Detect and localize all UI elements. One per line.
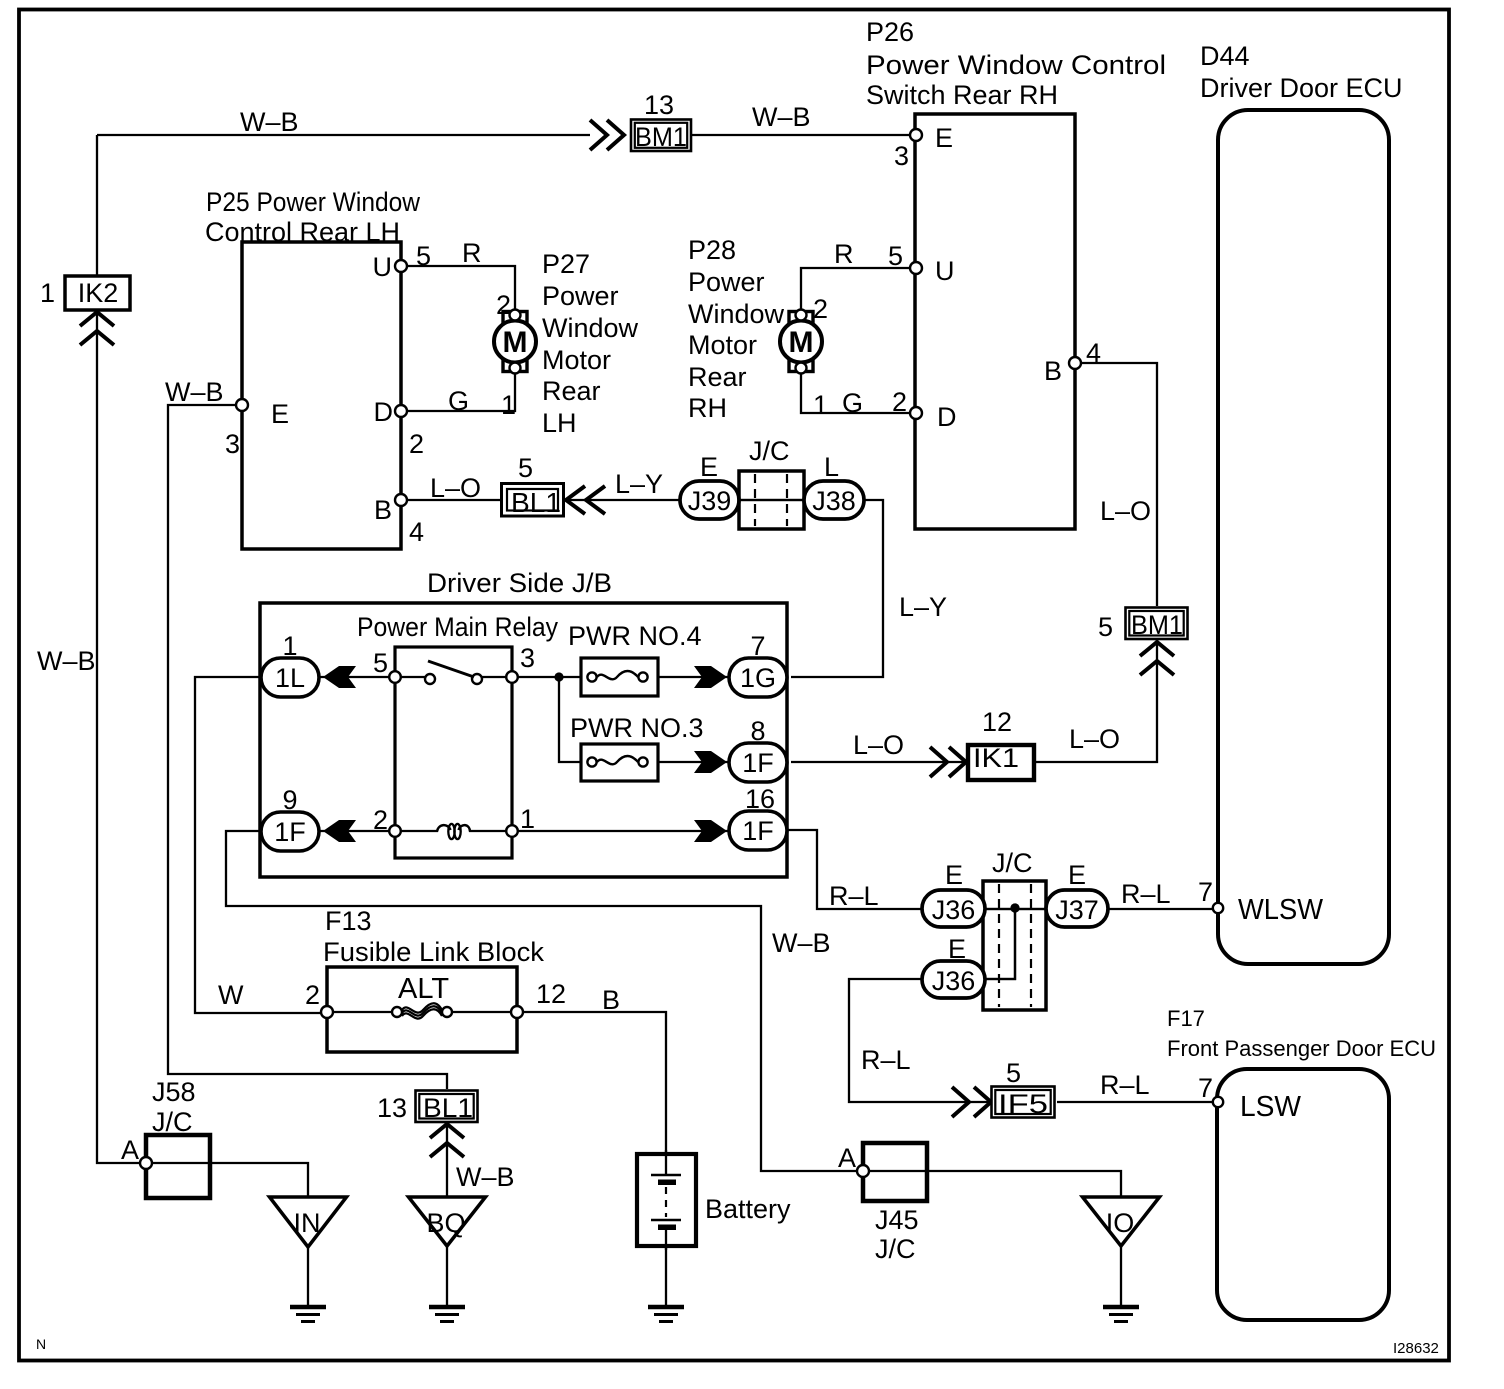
svg-text:Battery: Battery bbox=[705, 1194, 791, 1224]
svg-text:W–B: W–B bbox=[165, 377, 224, 407]
connector IK1 pin 12 bbox=[968, 707, 1034, 780]
svg-text:1G: 1G bbox=[740, 663, 776, 693]
wire R-L J36 through J/C to J37 to D44 pin WLSW bbox=[925, 908, 1212, 910]
connector BM1 pin 13 bbox=[631, 90, 691, 152]
svg-text:J39: J39 bbox=[688, 486, 732, 516]
svg-text:L–Y: L–Y bbox=[899, 592, 947, 622]
svg-text:M: M bbox=[503, 326, 528, 359]
relay coil bbox=[437, 825, 451, 831]
svg-text:4: 4 bbox=[1086, 338, 1101, 368]
svg-text:P26: P26 bbox=[866, 17, 914, 47]
P25 pin E (3) bbox=[225, 399, 289, 459]
connector BL1 pin 5 bbox=[502, 453, 564, 518]
svg-text:E: E bbox=[945, 860, 963, 890]
node A on J45 bbox=[838, 1143, 869, 1177]
junction connector J58 J/C bbox=[146, 1077, 210, 1198]
ground symbol below IO bbox=[1103, 1307, 1139, 1322]
node A on J58 bbox=[121, 1135, 152, 1169]
P26 pin D (2) bbox=[892, 387, 957, 432]
wire inside J/B: 1L to relay pin 5 bbox=[319, 676, 395, 678]
arrow into 1F 16 bbox=[694, 820, 727, 842]
junction connector oval J36 pin E upper bbox=[922, 860, 985, 927]
wire L-Y from J38 down to Driver Side J/B pin 1G bbox=[791, 500, 883, 677]
svg-text:Fusible Link Block: Fusible Link Block bbox=[323, 937, 544, 967]
ground symbol below BQ bbox=[429, 1307, 465, 1322]
svg-text:P28: P28 bbox=[688, 235, 736, 265]
wire inside fusible link block to ALT fuse bbox=[333, 1011, 392, 1013]
svg-text:Window: Window bbox=[688, 299, 785, 329]
P26 pin U (5) bbox=[888, 241, 955, 286]
svg-text:ALT: ALT bbox=[398, 973, 449, 1005]
wire R from P25 pin U to motor P27 bbox=[407, 266, 515, 310]
J/B pin 1 terminal 1L bbox=[261, 631, 319, 697]
svg-text:A: A bbox=[838, 1143, 856, 1173]
svg-text:Power Main Relay: Power Main Relay bbox=[357, 612, 558, 642]
Power Main Relay bbox=[357, 612, 558, 858]
relay pin 3 bbox=[506, 671, 518, 683]
wire L-O from P25 pin B to BL1 connector 5 bbox=[407, 499, 501, 501]
F13 pin 12 bbox=[511, 979, 566, 1018]
svg-text:BL1: BL1 bbox=[423, 1093, 473, 1123]
wire W-B from P25 pin E down and over to BL1 connector bbox=[168, 405, 447, 1089]
svg-text:4: 4 bbox=[409, 517, 424, 547]
svg-text:WLSW: WLSW bbox=[1238, 894, 1324, 926]
svg-text:Control Rear LH: Control Rear LH bbox=[205, 217, 400, 247]
junction dot at relay pin 3 branch bbox=[554, 672, 563, 681]
motor P27 Power Window Motor Rear LH bbox=[494, 290, 536, 420]
junction connector oval J38 pin L bbox=[804, 452, 864, 519]
ground triangle IN bbox=[270, 1197, 347, 1247]
svg-text:9: 9 bbox=[282, 785, 297, 815]
svg-text:PWR NO.4: PWR NO.4 bbox=[568, 621, 702, 651]
wire B from fusible link pin 12 to battery bbox=[523, 1012, 666, 1154]
svg-text:L–O: L–O bbox=[853, 730, 904, 760]
svg-text:B: B bbox=[602, 985, 620, 1015]
svg-text:L–O: L–O bbox=[430, 473, 481, 503]
J/B pin 9 terminal 1F bbox=[261, 785, 319, 851]
svg-text:J37: J37 bbox=[1055, 895, 1099, 925]
wire L-O from BM1 5 down to IK1 row bbox=[1034, 640, 1157, 762]
svg-text:16: 16 bbox=[745, 784, 775, 814]
wire R from P26 pin U to motor P28 bbox=[801, 268, 910, 310]
svg-text:RH: RH bbox=[688, 393, 727, 423]
svg-text:1: 1 bbox=[40, 278, 55, 308]
svg-text:R–L: R–L bbox=[1100, 1070, 1150, 1100]
svg-text:D: D bbox=[937, 402, 957, 432]
svg-text:D: D bbox=[374, 397, 394, 427]
svg-text:BL1: BL1 bbox=[511, 487, 561, 518]
svg-text:Rear: Rear bbox=[688, 362, 747, 392]
connector IK2 pin 1 bbox=[40, 276, 130, 310]
svg-text:Motor: Motor bbox=[542, 345, 611, 375]
svg-text:1L: 1L bbox=[275, 663, 305, 693]
P26 pin E (3) bbox=[894, 123, 953, 171]
svg-text:W–B: W–B bbox=[752, 102, 811, 132]
wire IO triangle to ground bbox=[1120, 1246, 1122, 1306]
svg-text:I28632: I28632 bbox=[1393, 1340, 1439, 1357]
svg-text:LH: LH bbox=[542, 408, 577, 438]
wire L-O from J/B pin 8 1F to IK1 bbox=[791, 761, 968, 763]
svg-text:B: B bbox=[374, 495, 392, 525]
svg-text:E: E bbox=[271, 399, 289, 429]
junction connector J/C box between J39 and J38 bbox=[739, 436, 804, 529]
junction connector J45 J/C bbox=[863, 1143, 927, 1264]
svg-text:J/C: J/C bbox=[875, 1234, 916, 1264]
svg-text:J36: J36 bbox=[932, 895, 976, 925]
D44 pin 7 WLSW bbox=[1198, 877, 1324, 926]
svg-text:R–L: R–L bbox=[829, 881, 879, 911]
wire W-B from J/B pin 9 1F down to J45 junction A bbox=[226, 831, 857, 1171]
svg-text:W–B: W–B bbox=[772, 928, 831, 958]
svg-text:12: 12 bbox=[982, 707, 1012, 737]
svg-text:F13: F13 bbox=[325, 906, 372, 936]
wire W-B top from left riser to BM1 connector bbox=[97, 134, 590, 136]
ECU P25 Power Window Control Rear LH bbox=[205, 187, 420, 549]
svg-text:J/C: J/C bbox=[749, 436, 790, 466]
svg-text:5: 5 bbox=[416, 241, 431, 271]
svg-text:IK1: IK1 bbox=[973, 743, 1019, 773]
svg-text:J45: J45 bbox=[875, 1205, 919, 1235]
Driver Side J/B box bbox=[260, 568, 787, 877]
wire W from J/B pin 1 1L down to fusible link block pin 2 bbox=[195, 677, 321, 1013]
svg-text:1F: 1F bbox=[274, 817, 306, 847]
svg-text:E: E bbox=[1068, 860, 1086, 890]
arrow into 1F 8 bbox=[694, 751, 727, 773]
svg-text:W–B: W–B bbox=[37, 646, 96, 676]
svg-text:Power: Power bbox=[688, 267, 765, 297]
wire R-L from J/B pin 16 1F to J36 bbox=[787, 830, 925, 909]
battery bbox=[637, 1150, 791, 1250]
chevrons before BM1 13 bbox=[590, 120, 624, 150]
svg-text:Driver Side J/B: Driver Side J/B bbox=[427, 568, 612, 598]
svg-text:5: 5 bbox=[518, 453, 533, 483]
fuse ALT bbox=[392, 973, 452, 1019]
F17 pin 7 LSW bbox=[1198, 1073, 1302, 1123]
J/B pin 8 terminal 1F bbox=[729, 716, 787, 782]
svg-text:2: 2 bbox=[409, 429, 424, 459]
svg-text:7: 7 bbox=[1198, 877, 1213, 907]
fuse PWR NO.3 bbox=[570, 713, 704, 781]
svg-text:Front Passenger Door ECU: Front Passenger Door ECU bbox=[1167, 1036, 1436, 1061]
svg-text:LSW: LSW bbox=[1240, 1091, 1302, 1123]
svg-text:N: N bbox=[36, 1336, 46, 1352]
wire G from P26 pin D to motor P28 bbox=[801, 372, 910, 413]
svg-text:L–O: L–O bbox=[1100, 496, 1151, 526]
svg-text:PWR NO.3: PWR NO.3 bbox=[570, 713, 704, 743]
svg-text:7: 7 bbox=[750, 631, 765, 661]
svg-text:L: L bbox=[824, 452, 839, 482]
svg-text:L–O: L–O bbox=[1069, 724, 1120, 754]
fuse PWR NO.4 bbox=[568, 621, 702, 696]
svg-text:13: 13 bbox=[644, 90, 674, 120]
svg-text:E: E bbox=[935, 123, 953, 153]
svg-text:J/C: J/C bbox=[992, 848, 1033, 878]
svg-text:8: 8 bbox=[750, 716, 765, 746]
svg-text:R: R bbox=[834, 239, 854, 269]
fusible link block F13 bbox=[323, 906, 544, 1052]
svg-text:B: B bbox=[1044, 356, 1062, 386]
svg-text:BM1: BM1 bbox=[635, 122, 687, 152]
svg-text:L–Y: L–Y bbox=[615, 469, 663, 499]
svg-text:7: 7 bbox=[1198, 1073, 1213, 1103]
relay pin 5 bbox=[389, 671, 401, 683]
chevrons before IF5 bbox=[952, 1087, 991, 1117]
svg-text:E: E bbox=[700, 452, 718, 482]
svg-text:2: 2 bbox=[892, 387, 907, 417]
svg-text:5: 5 bbox=[888, 241, 903, 271]
svg-text:3: 3 bbox=[894, 141, 909, 171]
svg-text:5: 5 bbox=[1098, 612, 1113, 642]
wire R-L from lower J36 to IF5 connector bbox=[849, 979, 992, 1102]
svg-text:W–B: W–B bbox=[456, 1162, 515, 1192]
junction dot inside J36/J37 J/C bbox=[1010, 903, 1019, 912]
svg-text:1: 1 bbox=[520, 804, 535, 834]
svg-text:J58: J58 bbox=[152, 1077, 196, 1107]
svg-text:2: 2 bbox=[813, 294, 828, 324]
chevrons below BL1 13 bbox=[430, 1124, 464, 1157]
svg-text:R–L: R–L bbox=[861, 1045, 911, 1075]
ground symbol below IN bbox=[290, 1307, 326, 1322]
svg-text:3: 3 bbox=[520, 643, 535, 673]
svg-text:IO: IO bbox=[1106, 1208, 1135, 1238]
chevrons after BL1 5 bbox=[566, 486, 605, 514]
svg-text:3: 3 bbox=[225, 429, 240, 459]
chevrons below BM1 5 bbox=[1140, 642, 1174, 675]
junction connector oval J36 pin E lower bbox=[922, 934, 985, 998]
wire L-O from P26 pin B down to BM1 connector 5 bbox=[1081, 363, 1157, 606]
wire BQ triangle to ground bbox=[446, 1246, 448, 1306]
svg-text:IK2: IK2 bbox=[78, 278, 119, 308]
svg-text:M: M bbox=[789, 326, 814, 359]
svg-text:BM1: BM1 bbox=[1131, 610, 1183, 640]
svg-text:1: 1 bbox=[282, 631, 297, 661]
svg-text:W–B: W–B bbox=[240, 107, 299, 137]
switch P26 Power Window Control Switch Rear RH bbox=[866, 17, 1166, 529]
svg-text:G: G bbox=[448, 386, 469, 416]
svg-text:P25 Power Window: P25 Power Window bbox=[206, 187, 420, 217]
motor P28 Power Window Motor Rear RH bbox=[780, 294, 828, 420]
svg-text:1: 1 bbox=[813, 390, 828, 420]
svg-text:E: E bbox=[948, 934, 966, 964]
ground triangle IO bbox=[1083, 1197, 1160, 1246]
P25 pin D (2) bbox=[374, 397, 425, 459]
svg-text:P27: P27 bbox=[542, 249, 590, 279]
svg-text:G: G bbox=[842, 388, 863, 418]
wire R-L from IF5 to F17 pin LSW bbox=[1057, 1101, 1212, 1103]
svg-text:12: 12 bbox=[536, 979, 566, 1009]
arrow out of 1L bbox=[323, 666, 356, 688]
wire inside J/B: branch from junction to PWR NO.3 fuse to 1F pin 8 bbox=[559, 677, 581, 762]
label block P27 bbox=[542, 249, 639, 438]
svg-text:U: U bbox=[935, 256, 955, 286]
wire battery negative to ground bbox=[665, 1246, 667, 1306]
label block P28 bbox=[688, 235, 785, 423]
svg-text:W: W bbox=[218, 980, 244, 1010]
wire IN triangle to ground bbox=[307, 1247, 309, 1306]
svg-text:5: 5 bbox=[373, 648, 388, 678]
wire W-B from BL1 down to BQ triangle bbox=[446, 1123, 448, 1197]
svg-text:13: 13 bbox=[377, 1093, 407, 1123]
svg-text:1: 1 bbox=[501, 390, 516, 420]
svg-text:Power: Power bbox=[542, 281, 619, 311]
wire inside J/B: 1F pin 9 to relay pin 2 bbox=[319, 830, 395, 832]
J/B pin 16 terminal 1F bbox=[729, 784, 787, 850]
junction connector oval J37 pin E bbox=[1046, 860, 1108, 927]
svg-text:5: 5 bbox=[1006, 1058, 1021, 1088]
svg-text:R: R bbox=[462, 238, 482, 268]
connector BM1 pin 5 bbox=[1098, 608, 1188, 643]
arrow into 1G bbox=[694, 666, 727, 688]
ECU F17 Front Passenger Door ECU bbox=[1167, 1006, 1436, 1320]
wire from junction A of J45 to IO ground triangle bbox=[869, 1171, 1121, 1197]
svg-text:2: 2 bbox=[305, 980, 320, 1010]
svg-text:1F: 1F bbox=[742, 748, 774, 778]
F13 pin 2 bbox=[305, 980, 333, 1018]
svg-text:J36: J36 bbox=[932, 966, 976, 996]
svg-text:2: 2 bbox=[373, 805, 388, 835]
arrow out of 1F 9 bbox=[323, 820, 356, 842]
svg-text:IN: IN bbox=[294, 1208, 321, 1238]
P25 pin U (5) bbox=[373, 241, 432, 282]
P26 pin B (4) bbox=[1044, 338, 1101, 386]
svg-text:1F: 1F bbox=[742, 816, 774, 846]
wire G from P25 pin D to motor P27 bbox=[407, 372, 515, 411]
wire inside J/B: relay pin 1 to 1F pin 16 bbox=[512, 830, 729, 832]
J/B pin 7 terminal 1G bbox=[729, 631, 787, 697]
wire inside J/B: relay pin 3 to PWR NO.4 fuse to 1G bbox=[512, 676, 581, 678]
svg-text:U: U bbox=[373, 252, 393, 282]
svg-text:D44: D44 bbox=[1200, 41, 1250, 71]
svg-text:F17: F17 bbox=[1167, 1006, 1205, 1031]
chevrons before IK1 bbox=[930, 747, 966, 777]
chevrons below IK2 bbox=[80, 312, 114, 345]
svg-text:J/C: J/C bbox=[152, 1107, 193, 1137]
svg-text:Rear: Rear bbox=[542, 376, 601, 406]
relay pin 2 bbox=[389, 825, 401, 837]
svg-text:R–L: R–L bbox=[1121, 879, 1171, 909]
wire L-Y from BL1 5 to J39 through J/C to J38 bbox=[565, 499, 864, 501]
wire W-B from BM1 to P26 pin E bbox=[692, 134, 910, 136]
wire from junction A through J58 to IN ground triangle bbox=[152, 1163, 308, 1197]
P25 pin B (4) bbox=[374, 494, 424, 547]
connector BL1 pin 13 bbox=[377, 1091, 478, 1124]
junction connector oval J39 pin E bbox=[680, 452, 739, 519]
connector IF5 pin 5 bbox=[992, 1058, 1055, 1119]
ground symbol below battery bbox=[648, 1307, 684, 1322]
svg-text:IF5: IF5 bbox=[998, 1089, 1048, 1119]
relay switch contacts bbox=[395, 676, 428, 678]
junction connector J/C box between J36 and J37 bbox=[983, 848, 1046, 1010]
ground triangle BQ bbox=[409, 1197, 486, 1246]
wire W-B left riser from IK2 down to junction A row bbox=[97, 310, 140, 1163]
svg-text:Switch Rear RH: Switch Rear RH bbox=[866, 80, 1058, 110]
wire branch inside J/C down to lower J36 bbox=[960, 908, 1015, 979]
svg-text:Window: Window bbox=[542, 313, 639, 343]
svg-text:2: 2 bbox=[496, 290, 511, 320]
ECU D44 Driver Door ECU bbox=[1200, 41, 1403, 964]
svg-text:BQ: BQ bbox=[426, 1208, 465, 1238]
wire W-B left riser from top to IK2 bbox=[96, 135, 98, 276]
svg-text:Driver Door ECU: Driver Door ECU bbox=[1200, 73, 1403, 103]
relay pin 1 bbox=[506, 825, 518, 837]
svg-text:A: A bbox=[121, 1135, 139, 1165]
svg-text:J38: J38 bbox=[812, 486, 856, 516]
svg-text:Motor: Motor bbox=[688, 330, 757, 360]
svg-text:Power Window Control: Power Window Control bbox=[866, 50, 1166, 80]
